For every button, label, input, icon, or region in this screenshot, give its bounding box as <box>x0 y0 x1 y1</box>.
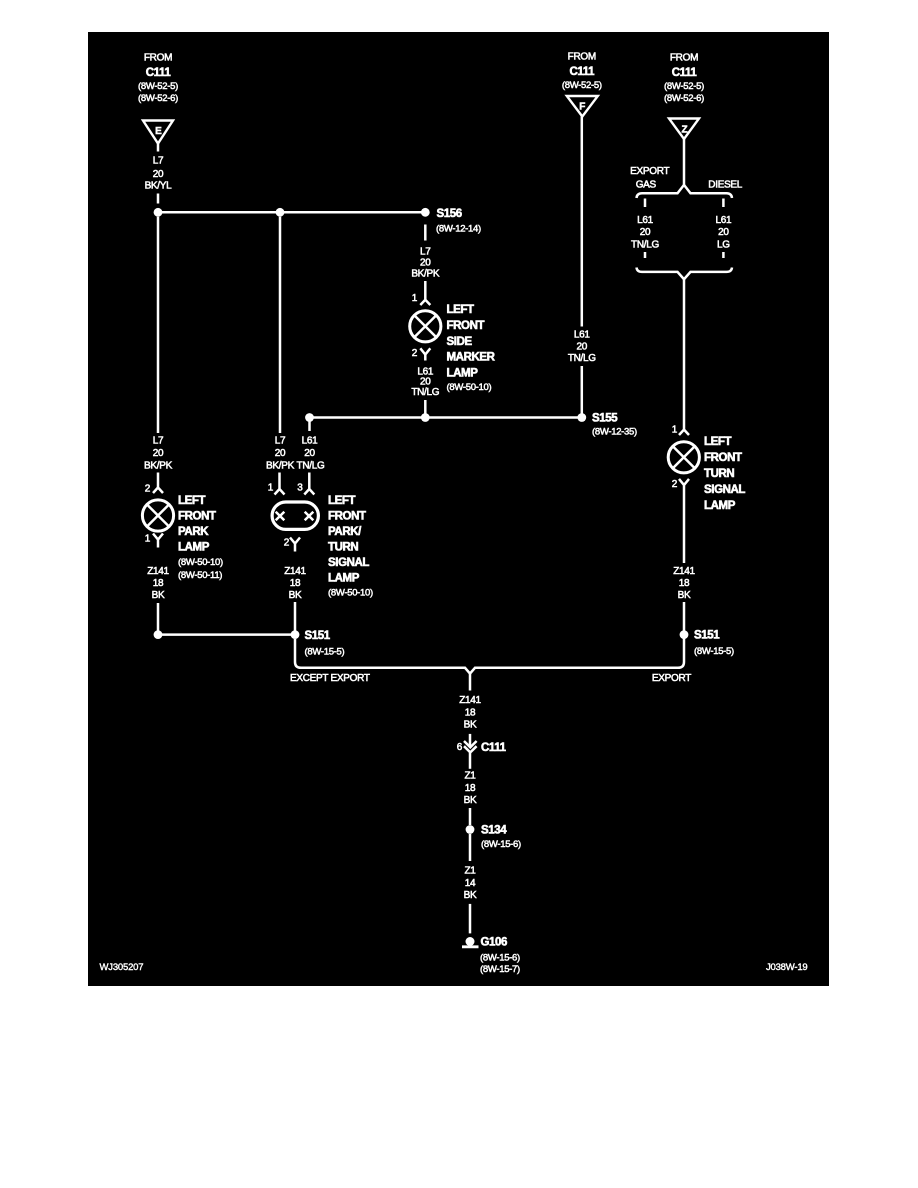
svg-text:(8W-52-5): (8W-52-5) <box>562 80 602 91</box>
svg-text:14: 14 <box>465 878 476 889</box>
svg-text:LAMP: LAMP <box>704 500 736 512</box>
lamp: left front park/turn signal lamp (dual filament) <box>272 502 318 529</box>
junction node <box>154 208 163 217</box>
wire label Z141 18 BK (mid) <box>284 566 306 601</box>
wire S156 drop <box>424 225 427 241</box>
splice S155 <box>577 413 586 422</box>
wire label L7 20 BK/PK <box>411 247 440 280</box>
svg-text:EXCEPT EXPORT: EXCEPT EXPORT <box>290 673 370 684</box>
svg-text:2: 2 <box>672 479 678 490</box>
wire gas branch <box>644 252 647 258</box>
junction node <box>276 208 285 217</box>
wire label L61 20 TN/LG <box>411 366 439 398</box>
wire <box>294 602 297 635</box>
svg-text:(8W-52-5): (8W-52-5) <box>664 81 704 92</box>
svg-text:BK: BK <box>464 720 477 731</box>
svg-text:BK: BK <box>289 590 302 601</box>
wire label Z141 18 BK (right) <box>673 566 695 601</box>
svg-text:S156: S156 <box>437 208 462 220</box>
svg-text:WJ305207: WJ305207 <box>100 962 144 973</box>
splice S151 left <box>291 630 300 639</box>
pin 1 of turn signal lamp <box>672 425 689 436</box>
svg-text:1: 1 <box>412 293 418 304</box>
svg-text:PARK/: PARK/ <box>328 526 362 538</box>
svg-text:C111: C111 <box>569 66 595 78</box>
junction node <box>305 413 314 422</box>
svg-text:L7: L7 <box>420 247 431 258</box>
ground G106 <box>462 937 479 947</box>
svg-text:Z141: Z141 <box>459 695 481 706</box>
svg-text:GAS: GAS <box>636 179 657 190</box>
svg-text:FRONT: FRONT <box>447 320 485 332</box>
svg-text:20: 20 <box>153 169 164 180</box>
svg-text:20: 20 <box>420 258 431 269</box>
svg-text:TURN: TURN <box>704 468 734 480</box>
pin 2 of turn signal lamp <box>672 479 689 493</box>
svg-text:C111: C111 <box>672 67 698 79</box>
splice S156 <box>421 208 430 217</box>
svg-text:(8W-50-10): (8W-50-10) <box>178 557 223 568</box>
svg-text:BK: BK <box>464 890 477 901</box>
option split brace top <box>637 185 733 198</box>
svg-text:S134: S134 <box>481 825 507 837</box>
svg-text:L61: L61 <box>302 436 319 447</box>
svg-text:E: E <box>155 126 162 137</box>
svg-text:LAMP: LAMP <box>178 542 210 554</box>
svg-text:PARK: PARK <box>178 526 209 538</box>
svg-text:LG: LG <box>717 240 730 251</box>
svg-text:(8W-12-35): (8W-12-35) <box>592 427 637 438</box>
wire <box>469 752 472 768</box>
svg-text:MARKER: MARKER <box>447 352 496 364</box>
svg-text:EXPORT: EXPORT <box>630 166 669 177</box>
bus wire S155 row <box>310 416 582 419</box>
svg-text:G106: G106 <box>481 937 508 949</box>
svg-text:SIGNAL: SIGNAL <box>328 557 369 569</box>
lamp: left front park lamp <box>142 500 173 531</box>
svg-text:Z1: Z1 <box>464 866 476 877</box>
svg-text:BK: BK <box>678 590 691 601</box>
svg-text:(8W-15-7): (8W-15-7) <box>480 964 520 975</box>
option label EXPORT GAS <box>630 166 669 190</box>
svg-text:BK/YL: BK/YL <box>145 181 173 192</box>
svg-text:FRONT: FRONT <box>328 511 366 523</box>
wire from triangle E <box>157 144 160 152</box>
svg-text:BK/PK: BK/PK <box>266 461 295 472</box>
connector triangle F <box>567 96 598 117</box>
svg-text:(8W-15-5): (8W-15-5) <box>305 647 345 658</box>
bus wire S156 row <box>158 211 425 214</box>
svg-text:Z: Z <box>681 124 687 135</box>
wire center drop <box>469 674 472 691</box>
svg-text:C111: C111 <box>146 67 172 79</box>
svg-text:FROM: FROM <box>144 53 172 64</box>
svg-text:20: 20 <box>577 341 588 352</box>
pin 2 of left front park lamp <box>145 473 163 495</box>
wire gas branch <box>644 199 647 208</box>
pin 1 of park/turn signal lamp <box>268 473 285 495</box>
svg-text:SIGNAL: SIGNAL <box>704 484 745 496</box>
lamp: left front turn signal lamp <box>668 442 699 473</box>
node E header FROM C111 <box>138 53 178 105</box>
wire <box>683 602 686 639</box>
pin 1 of left front park lamp <box>145 534 163 548</box>
svg-text:DIESEL: DIESEL <box>708 179 743 190</box>
svg-text:6: 6 <box>457 742 463 753</box>
svg-text:18: 18 <box>465 783 476 794</box>
wire <box>469 904 472 934</box>
wire label L61 20 TN/LG (gas) <box>631 215 659 251</box>
wire from triangle Z <box>683 139 686 185</box>
pin 2 of park/turn signal lamp <box>284 538 300 552</box>
wire <box>683 493 686 563</box>
svg-text:FRONT: FRONT <box>178 511 216 523</box>
wire label L7 20 BK/PK (mid) <box>266 436 295 472</box>
svg-text:2: 2 <box>284 538 290 549</box>
svg-text:(8W-12-14): (8W-12-14) <box>436 223 481 234</box>
splice S151 right <box>680 630 689 639</box>
svg-text:BK/PK: BK/PK <box>144 461 173 472</box>
svg-text:(8W-52-6): (8W-52-6) <box>664 93 704 104</box>
node Z header FROM C111 <box>664 53 704 105</box>
svg-text:LEFT: LEFT <box>704 436 732 448</box>
option merge brace bottom <box>637 268 733 280</box>
pin 3 of park/turn signal lamp <box>297 473 314 495</box>
in-line connector C111 pin 6 <box>457 741 507 754</box>
svg-text:FROM: FROM <box>568 52 596 63</box>
wire <box>157 603 160 635</box>
svg-text:SIDE: SIDE <box>447 336 473 348</box>
svg-text:L7: L7 <box>275 436 286 447</box>
svg-text:(8W-15-6): (8W-15-6) <box>480 952 520 963</box>
svg-text:L7: L7 <box>153 156 164 167</box>
wire label L61 20 LG (diesel) <box>716 215 733 251</box>
svg-text:20: 20 <box>640 227 651 238</box>
svg-text:Z1: Z1 <box>464 771 476 782</box>
svg-text:18: 18 <box>153 578 164 589</box>
wire label Z1 18 BK <box>464 771 477 807</box>
splice S134 <box>466 825 475 834</box>
wire label Z141 18 BK (left) <box>147 566 169 601</box>
svg-text:(8W-15-5): (8W-15-5) <box>694 646 734 657</box>
wire Z column down <box>683 279 686 429</box>
junction node <box>154 630 163 639</box>
svg-text:(8W-50-10): (8W-50-10) <box>328 587 373 598</box>
svg-text:BK/PK: BK/PK <box>411 269 440 280</box>
svg-text:F: F <box>579 102 585 113</box>
pin 1 of side marker lamp <box>412 281 431 305</box>
wire mid column drop <box>279 217 282 433</box>
wire from triangle F <box>581 117 584 327</box>
wire <box>581 366 584 418</box>
svg-text:2: 2 <box>412 348 418 359</box>
connector triangle Z <box>669 119 699 140</box>
svg-text:1: 1 <box>268 483 274 494</box>
node F header FROM C111 <box>562 52 602 91</box>
svg-text:L61: L61 <box>574 330 591 341</box>
svg-text:C111: C111 <box>481 742 507 754</box>
schematic black background panel <box>88 32 829 986</box>
bus wire S151 left row <box>158 633 295 636</box>
svg-text:LEFT: LEFT <box>328 495 356 507</box>
pin 2 of side marker lamp <box>412 348 431 361</box>
junction node <box>421 413 430 422</box>
wire label L7 20 BK/YL <box>145 156 173 192</box>
svg-text:LEFT: LEFT <box>447 304 475 316</box>
svg-text:S151: S151 <box>694 630 720 642</box>
svg-text:TN/LG: TN/LG <box>568 353 596 364</box>
svg-text:Z141: Z141 <box>147 566 169 577</box>
svg-text:(8W-50-10): (8W-50-10) <box>447 382 492 393</box>
svg-text:L61: L61 <box>716 215 733 226</box>
wire label Z141 18 BK (center) <box>459 695 481 731</box>
svg-text:L7: L7 <box>153 436 164 447</box>
svg-text:LAMP: LAMP <box>447 368 479 380</box>
svg-text:20: 20 <box>275 448 286 459</box>
connector triangle E <box>143 121 173 144</box>
svg-text:S155: S155 <box>592 413 618 425</box>
svg-text:BK: BK <box>152 590 165 601</box>
svg-text:Z141: Z141 <box>284 566 306 577</box>
wire label Z1 14 BK <box>464 866 477 902</box>
wire <box>424 400 427 418</box>
wire diesel branch <box>722 252 725 258</box>
svg-text:(8W-15-6): (8W-15-6) <box>481 839 521 850</box>
svg-text:TN/LG: TN/LG <box>297 461 325 472</box>
wire label L7 20 BK/PK (left) <box>144 436 173 472</box>
svg-text:20: 20 <box>304 448 315 459</box>
svg-text:FROM: FROM <box>670 53 698 64</box>
wire from S155 bus down <box>308 418 311 431</box>
wire diesel branch <box>722 199 725 208</box>
svg-text:TN/LG: TN/LG <box>631 240 659 251</box>
wire <box>157 194 160 204</box>
svg-text:(8W-52-5): (8W-52-5) <box>138 81 178 92</box>
wire <box>469 808 472 825</box>
wire <box>469 734 472 747</box>
svg-text:1: 1 <box>672 425 678 436</box>
svg-text:L61: L61 <box>637 215 654 226</box>
wire <box>469 834 472 861</box>
svg-text:(8W-52-6): (8W-52-6) <box>138 93 178 104</box>
svg-text:1: 1 <box>145 534 151 545</box>
svg-text:S151: S151 <box>305 630 331 642</box>
svg-text:LEFT: LEFT <box>178 495 206 507</box>
svg-text:3: 3 <box>297 483 303 494</box>
wire label L61 20 TN/LG (mid) <box>297 436 325 472</box>
wire left column drop <box>157 217 160 433</box>
svg-text:Z141: Z141 <box>673 566 695 577</box>
svg-text:FRONT: FRONT <box>704 452 742 464</box>
svg-text:BK: BK <box>464 795 477 806</box>
svg-text:18: 18 <box>290 578 301 589</box>
svg-text:EXPORT: EXPORT <box>652 673 691 684</box>
lamp: left front side marker lamp <box>410 311 441 342</box>
svg-text:(8W-50-11): (8W-50-11) <box>178 570 222 581</box>
svg-text:TURN: TURN <box>328 542 358 554</box>
svg-text:LAMP: LAMP <box>328 573 360 585</box>
svg-text:TN/LG: TN/LG <box>411 387 439 398</box>
svg-text:18: 18 <box>465 707 476 718</box>
merge brace except-export / export <box>295 639 684 674</box>
svg-text:20: 20 <box>153 448 164 459</box>
svg-text:2: 2 <box>145 484 151 495</box>
svg-text:20: 20 <box>718 227 729 238</box>
wire label L61 20 TN/LG (F) <box>568 330 596 365</box>
svg-text:J038W-19: J038W-19 <box>766 962 808 973</box>
svg-text:18: 18 <box>679 578 690 589</box>
